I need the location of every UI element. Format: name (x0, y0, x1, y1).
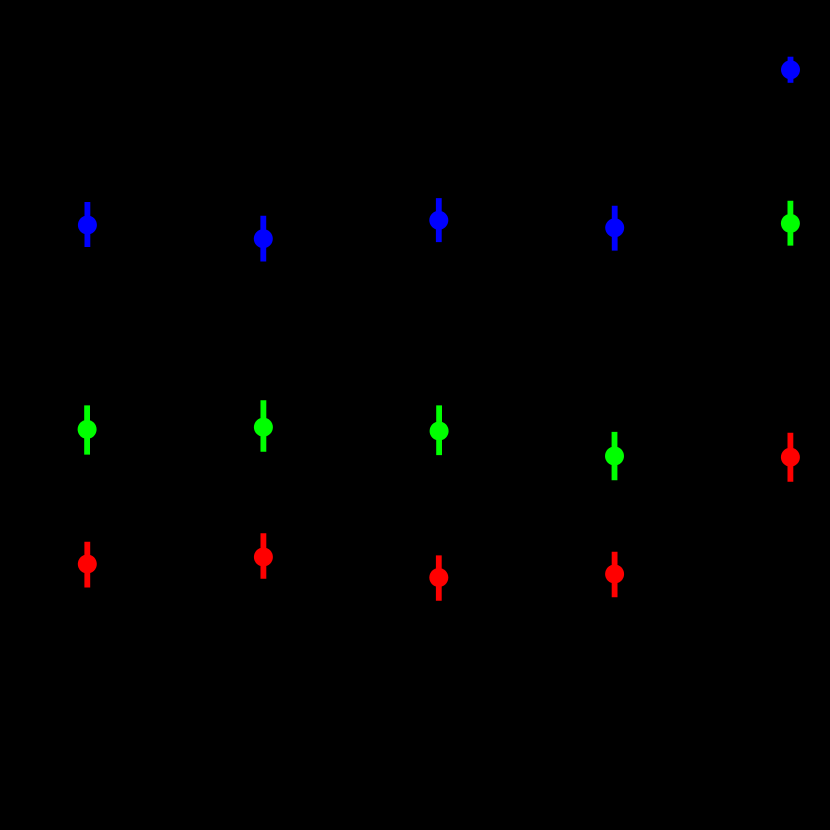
green point col3 (430, 405, 449, 455)
blue point col5 (781, 57, 800, 83)
red point col4 (605, 552, 624, 597)
red point col2 (254, 533, 273, 578)
green point col4 (605, 432, 624, 480)
blue point col2 (254, 216, 273, 262)
blue point col1 (78, 202, 97, 247)
green point col1 (78, 405, 97, 454)
blue point col4 (605, 206, 624, 251)
green point col5 (781, 201, 800, 246)
red point col3 (429, 555, 448, 600)
red point col5 (781, 433, 800, 482)
red point col1 (78, 542, 97, 588)
green point col2 (254, 400, 273, 452)
blue point col3 (429, 198, 448, 242)
